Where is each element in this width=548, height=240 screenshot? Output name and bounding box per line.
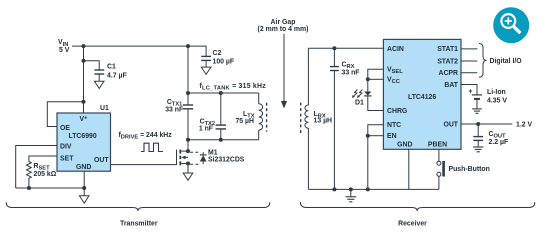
svg-text:fLC_TANK = 315 kHz: fLC_TANK = 315 kHz (200, 83, 267, 92)
svg-text:Push-Button: Push-Button (449, 166, 490, 173)
svg-text:Receiver: Receiver (398, 221, 427, 228)
svg-text:205 kΩ: 205 kΩ (34, 171, 57, 178)
svg-text:ACIN: ACIN (387, 46, 404, 53)
svg-text:OUT: OUT (94, 157, 109, 164)
svg-text:LTC4126: LTC4126 (408, 94, 436, 101)
ground (C2) (201, 67, 211, 74)
svg-text:OE: OE (60, 125, 70, 132)
svg-text:SET: SET (60, 156, 74, 163)
svg-text:BAT: BAT (444, 82, 458, 89)
IC U2 LTC4126 (383, 39, 461, 149)
wire bottom rail RX (308, 188, 439, 190)
wire ACPR (461, 72, 477, 74)
brace transmitter (6, 202, 270, 211)
LED D1 (367, 79, 369, 91)
wire VSEL/VCC (368, 69, 384, 79)
wire U2 GND pin (408, 149, 410, 189)
svg-text:(2 mm to 4 mm): (2 mm to 4 mm) (258, 26, 309, 33)
wire bottom (DIV/RSET/GND) (16, 187, 85, 189)
svg-text:5 V: 5 V (59, 47, 70, 54)
junction dot V+ tap (82, 44, 86, 48)
wire U1 GND pin (83, 171, 85, 196)
svg-text:C2: C2 (213, 50, 222, 57)
wire VIN top rail (72, 45, 188, 47)
junction dot CRX (332, 46, 336, 50)
op-amp U1 LTC6990 (57, 113, 111, 171)
svg-text:33 nF: 33 nF (165, 107, 183, 114)
svg-text:LTC6990: LTC6990 (69, 133, 97, 140)
wire to C2 (188, 46, 206, 56)
wire OUT 1.2V (461, 123, 512, 125)
junction dot RSET bottom (27, 186, 31, 190)
capacitor C2 (201, 56, 211, 67)
wire OE loop (47, 102, 83, 127)
wire tank top (188, 92, 259, 94)
svg-text:4.35 V: 4.35 V (487, 98, 507, 105)
wire STAT1 (461, 48, 477, 50)
wire STAT2 (461, 60, 477, 62)
ground (M1) (183, 173, 193, 180)
capacitor CTX2 (220, 93, 222, 125)
capacitor C1 (94, 70, 104, 81)
svg-text:Transmitter: Transmitter (120, 221, 158, 228)
svg-text:DIV: DIV (60, 144, 72, 151)
svg-text:+: + (469, 89, 473, 96)
svg-text:GND: GND (397, 142, 412, 149)
core line TX (dashed) (266, 103, 268, 132)
ground (C1) (94, 81, 104, 88)
battery Li-Ion (461, 85, 477, 95)
svg-text:Si2312CDS: Si2312CDS (208, 157, 245, 164)
arrow air gap (283, 34, 285, 102)
svg-text:STAT1: STAT1 (437, 46, 458, 53)
svg-text:M1: M1 (208, 150, 218, 157)
svg-text:33 nF: 33 nF (342, 70, 360, 77)
diode body of M1 (dashed) (190, 152, 207, 164)
wire V+ vertical (83, 46, 85, 113)
core line RX (dashed) (300, 103, 302, 136)
ground (rail) (345, 189, 356, 201)
junction dot OE tap (82, 100, 86, 104)
wire main vertical (drain column) (187, 46, 189, 105)
svg-text:OUT: OUT (443, 122, 458, 129)
square wave symbol (141, 143, 163, 151)
capacitor COUT (477, 124, 479, 136)
brace receiver (300, 202, 534, 211)
brace digital io (479, 44, 487, 78)
svg-text:CHRG: CHRG (387, 108, 407, 115)
LED light arrows (353, 90, 363, 98)
wire tank bottom (188, 139, 259, 141)
wire NTC/EN (368, 125, 384, 190)
resistor RSET (27, 162, 32, 189)
svg-text:13 µH: 13 µH (314, 118, 333, 125)
icon magnifier (493, 7, 529, 43)
svg-text:Digital I/O: Digital I/O (490, 58, 523, 65)
svg-text:1 nF: 1 nF (199, 126, 213, 133)
capacitor CRX (333, 48, 335, 66)
svg-text:1.2 V: 1.2 V (516, 122, 532, 129)
inductor LTX (258, 93, 260, 140)
svg-text:75 µH: 75 µH (235, 118, 254, 125)
svg-text:NTC: NTC (387, 122, 401, 129)
inductor LRX (307, 48, 309, 189)
svg-text:PBEN: PBEN (428, 142, 447, 149)
junction dot GND bottom (82, 186, 86, 190)
svg-text:ACPR: ACPR (438, 70, 458, 77)
ground (U1) (79, 196, 89, 203)
svg-text:100 µF: 100 µF (213, 59, 235, 66)
wire M1 source to ground (187, 164, 189, 174)
junction dot C1 tap (82, 59, 86, 63)
svg-text:2.2 µF: 2.2 µF (489, 139, 509, 146)
push-button (438, 149, 440, 161)
svg-text:C1: C1 (107, 64, 116, 71)
svg-text:4.7 µF: 4.7 µF (107, 73, 127, 80)
svg-text:U1: U1 (100, 105, 109, 112)
wire C1 tap (84, 61, 100, 70)
wire DIV (16, 146, 57, 189)
svg-text:D1: D1 (355, 100, 364, 107)
svg-text:GND: GND (76, 164, 91, 171)
svg-text:STAT2: STAT2 (437, 59, 458, 66)
wire RX top (ACIN) (308, 47, 383, 49)
wire SET (29, 156, 57, 162)
capacitor CTX1 (183, 105, 193, 109)
transistor M1 (180, 150, 188, 166)
wire OUT to gate (111, 150, 177, 165)
junction dot top rail right (186, 44, 190, 48)
svg-text:EN: EN (387, 133, 397, 140)
svg-text:Li-Ion: Li-Ion (487, 89, 506, 96)
svg-text:fDRIVE = 244 kHz: fDRIVE = 244 kHz (119, 132, 173, 141)
